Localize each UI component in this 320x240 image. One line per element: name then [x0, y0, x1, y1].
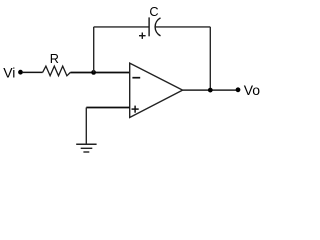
- ground: [76, 144, 96, 152]
- resistor R: [43, 66, 71, 76]
- wire ground vertical: [85, 108, 87, 145]
- node B output junction: [208, 88, 213, 93]
- wire feedback vertical right: [209, 27, 211, 90]
- svg-text:C: C: [149, 5, 158, 19]
- wire R to inverting input: [70, 72, 129, 74]
- capacitor C polarity plus: [139, 33, 146, 39]
- op-amp non-inverting mark: [132, 106, 139, 113]
- op-amp inverting mark: [132, 77, 140, 79]
- capacitor C plate curved: [155, 18, 160, 36]
- wire feedback vertical left: [93, 27, 95, 73]
- svg-text:Vi: Vi: [3, 64, 15, 80]
- node Vo terminal: [236, 87, 241, 92]
- capacitor C plate straight: [148, 17, 150, 36]
- wire output: [183, 89, 236, 91]
- wire ground to non-inverting input: [86, 107, 129, 109]
- op-amp U1: [130, 63, 183, 117]
- wire Vi to R: [23, 71, 43, 73]
- node A junction: [91, 70, 96, 75]
- svg-text:R: R: [50, 52, 59, 66]
- wire feedback top left to C: [94, 26, 149, 28]
- node Vi terminal: [18, 70, 23, 75]
- svg-text:Vo: Vo: [244, 82, 261, 98]
- wire C to right corner: [155, 26, 210, 28]
